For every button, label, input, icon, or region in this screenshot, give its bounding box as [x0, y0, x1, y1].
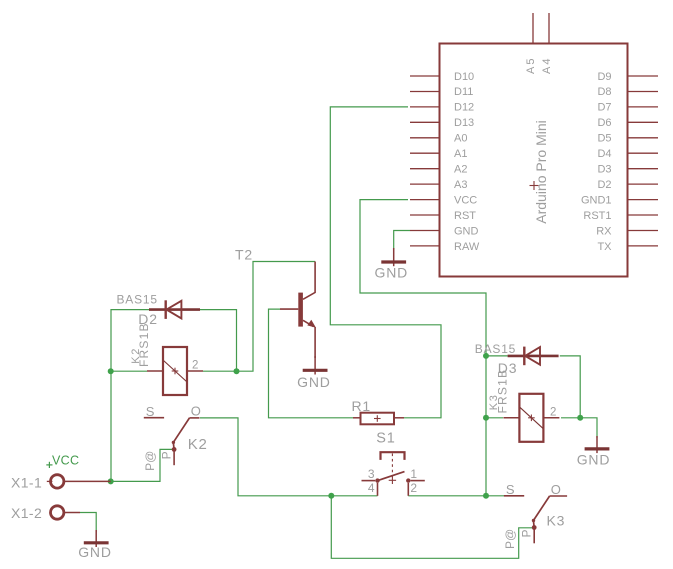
pin D4 (right) [597, 148, 658, 160]
pin RST1 (right) [583, 210, 658, 222]
wire T2 collector to node K2A [237, 262, 316, 372]
pin A3 (left) [410, 179, 467, 191]
pin TX (right) [597, 241, 658, 253]
svg-text:RST1: RST1 [583, 210, 611, 222]
wire D2 cathode side down [200, 310, 237, 372]
svg-text:D11: D11 [454, 86, 473, 98]
pin RX (right) [596, 225, 658, 237]
pin D13 (left) [410, 117, 474, 129]
wire D2 anode down left column [111, 310, 149, 482]
svg-text:O: O [551, 482, 561, 497]
relay contact switch K3 [503, 482, 567, 549]
wire K3 coil pin 2 [561, 417, 580, 419]
op-amp U1 Arduino Pro Mini body [440, 44, 628, 277]
svg-text:R1: R1 [352, 398, 372, 414]
pin A4 [541, 13, 553, 74]
svg-text:FRS1B: FRS1B [137, 322, 151, 367]
pin D3 (right) [597, 164, 658, 176]
pin D6 (right) [597, 117, 658, 129]
svg-text:GND: GND [454, 225, 479, 237]
wire D3 cathode down [560, 356, 580, 418]
pin RST (left) [410, 210, 476, 222]
svg-text:2: 2 [550, 406, 556, 418]
diode D3 BAS15 [475, 342, 559, 376]
ground (T2 emitter) [297, 356, 331, 390]
node junction (580,418) [577, 415, 583, 421]
svg-text:VCC: VCC [454, 194, 477, 206]
wire bottom run to K3 pivot [331, 496, 532, 559]
svg-text:VCC: VCC [52, 453, 79, 467]
svg-text:S: S [146, 404, 155, 419]
wire VCC pin to net column [360, 200, 486, 496]
pin D12 (left) [410, 102, 474, 114]
svg-text:RAW: RAW [454, 241, 480, 253]
svg-text:X1-2: X1-2 [11, 505, 42, 521]
power VCC supply symbol [46, 453, 79, 468]
wire K3 coil pin 1 [486, 417, 503, 419]
svg-text:D4: D4 [597, 148, 611, 160]
svg-text:T2: T2 [235, 247, 253, 263]
pin A0 (left) [410, 133, 467, 145]
wire Arduino GND pin [394, 231, 410, 250]
svg-text:P: P [160, 451, 174, 459]
svg-text:K3: K3 [547, 512, 566, 528]
pin A5 [525, 13, 537, 74]
transistor Q/T2 NPN [235, 247, 316, 359]
svg-text:2: 2 [192, 360, 198, 372]
node junction (486,356) [483, 353, 489, 359]
svg-text:P@: P@ [143, 451, 157, 471]
wire K2 coil pin 1 [111, 370, 147, 372]
svg-text:BAS15: BAS15 [475, 342, 516, 356]
svg-text:D9: D9 [597, 71, 611, 83]
svg-text:A4: A4 [541, 57, 553, 74]
svg-text:4: 4 [368, 481, 375, 495]
svg-text:GND: GND [577, 452, 611, 468]
svg-text:Arduino Pro Mini: Arduino Pro Mini [533, 120, 549, 224]
svg-text:D3: D3 [597, 164, 611, 176]
svg-text:GND: GND [78, 544, 112, 560]
svg-text:D2: D2 [597, 179, 611, 191]
svg-text:D12: D12 [454, 102, 474, 114]
svg-text:S1: S1 [376, 431, 395, 447]
svg-text:A3: A3 [454, 179, 467, 191]
node junction (111,371) [108, 368, 114, 374]
pin D11 (left) [410, 86, 473, 98]
pin D2 (right) [597, 179, 658, 191]
pin A1 (left) [410, 148, 467, 160]
svg-text:D7: D7 [597, 102, 611, 114]
pin A2 (left) [410, 164, 467, 176]
svg-text:A5: A5 [525, 57, 537, 74]
pin D5 (right) [597, 133, 658, 145]
wire D12 pin to R1 [330, 107, 441, 418]
svg-text:O: O [191, 404, 201, 419]
svg-text:S: S [506, 482, 515, 497]
pin D8 (right) [597, 86, 658, 98]
svg-text:K2: K2 [188, 436, 208, 453]
svg-text:D6: D6 [597, 117, 611, 129]
wire T2 base to R1 [269, 309, 354, 418]
resistor R1 [352, 398, 405, 424]
svg-text:A1: A1 [454, 148, 467, 160]
connector pad X1-1 [11, 475, 111, 491]
svg-text:FRS1B: FRS1B [495, 369, 509, 414]
svg-text:1: 1 [410, 467, 417, 481]
svg-text:TX: TX [597, 241, 612, 253]
wire D3 anode stub [486, 355, 508, 357]
node junction (486,496) [483, 493, 489, 499]
wire VCC column to K3 S contact [486, 495, 505, 497]
node junction (111,481) [108, 478, 114, 484]
svg-text:A0: A0 [454, 133, 467, 145]
svg-text:A2: A2 [454, 164, 467, 176]
node junction (486,418) [483, 415, 489, 421]
svg-text:X1-1: X1-1 [11, 475, 42, 491]
pin GND1 (right) [581, 194, 658, 206]
svg-text:GND: GND [375, 265, 409, 281]
ground (X1-2) [78, 530, 112, 560]
pin D9 (right) [597, 71, 658, 83]
diode D2 BAS15 [117, 293, 201, 328]
svg-text:P: P [520, 529, 534, 537]
pin D7 (right) [597, 102, 658, 114]
ground (Arduino GND pin) [375, 248, 409, 281]
ground (K3 coil) [577, 436, 611, 468]
node junction (331,496) [328, 493, 334, 499]
wire K3 node to GND [580, 418, 597, 438]
svg-text:RST: RST [454, 210, 476, 222]
svg-text:D10: D10 [454, 71, 474, 83]
relay contact switch K2 [143, 404, 208, 471]
svg-text:3: 3 [368, 467, 375, 481]
svg-text:D13: D13 [454, 117, 474, 129]
pin D10 (left) [410, 71, 474, 83]
svg-text:D8: D8 [597, 86, 611, 98]
connector pad X1-2 [11, 505, 80, 521]
svg-text:GND1: GND1 [581, 194, 612, 206]
wire X1-2 to GND [80, 513, 96, 533]
switch S1 pushbutton [362, 431, 425, 496]
relay coil K2 FRS1B [130, 322, 203, 395]
pin RAW (left) [410, 241, 480, 253]
svg-text:BAS15: BAS15 [117, 293, 158, 307]
pin VCC (left) [410, 194, 477, 206]
wire X1-1 to K2 pivot [111, 449, 172, 481]
svg-text:P@: P@ [503, 529, 517, 549]
svg-text:RX: RX [596, 225, 612, 237]
wire S1 pin2 to VCC column [408, 495, 486, 497]
svg-text:GND: GND [297, 374, 331, 390]
svg-text:2: 2 [410, 481, 417, 495]
pin GND (left) [410, 225, 479, 237]
node junction (236,371) [234, 368, 240, 374]
svg-text:D5: D5 [597, 133, 611, 145]
wire K2 coil pin 2 [203, 370, 237, 372]
wire K2 contact O down to S1 [200, 418, 378, 496]
relay coil K3 FRS1B [488, 369, 559, 442]
